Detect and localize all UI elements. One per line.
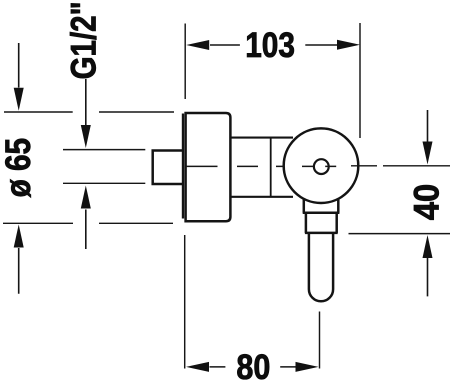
lever collar band 1 bbox=[304, 200, 339, 213]
extension line left vertical (x=185) bbox=[184, 24, 187, 369]
extension line lever bottom right (y=233.6) bbox=[349, 233, 450, 235]
small hub circle bbox=[314, 159, 329, 174]
extension line lever center vertical (x=319.5) bbox=[319, 312, 321, 369]
valve body cylinder bbox=[232, 138, 294, 197]
svg-text:103: 103 bbox=[245, 26, 295, 65]
svg-text:80: 80 bbox=[236, 348, 270, 387]
dimension G1/2 arrows bbox=[81, 79, 91, 249]
dimension 80 line bbox=[186, 362, 319, 372]
dimension 40 arrows bbox=[423, 110, 433, 296]
outlet connector G1/2 bbox=[153, 151, 183, 185]
extension line flange bottom (y=223.3) bbox=[3, 222, 173, 224]
flange back edge bbox=[182, 114, 184, 219]
svg-text:40: 40 bbox=[407, 184, 446, 221]
extension line flange top (y=112) bbox=[4, 111, 174, 113]
lever shaft bbox=[309, 233, 333, 301]
dimension o65 arrows bbox=[14, 43, 24, 294]
extension line right vertical (x=360) bbox=[359, 23, 361, 138]
extension line outlet bottom (y=183.3) bbox=[63, 182, 145, 184]
lever collar band 2 bbox=[306, 213, 337, 233]
flange plate (o65) bbox=[186, 113, 231, 221]
dimension 103 line bbox=[186, 40, 360, 50]
centerline (dash-dot axis) bbox=[186, 165, 450, 168]
extension line outlet top (y=148.9) bbox=[63, 149, 145, 151]
svg-text:G1/2": G1/2" bbox=[64, 1, 103, 79]
svg-text:ø 65: ø 65 bbox=[0, 138, 38, 198]
knob circle bbox=[284, 128, 359, 203]
body joint line bbox=[270, 138, 272, 197]
